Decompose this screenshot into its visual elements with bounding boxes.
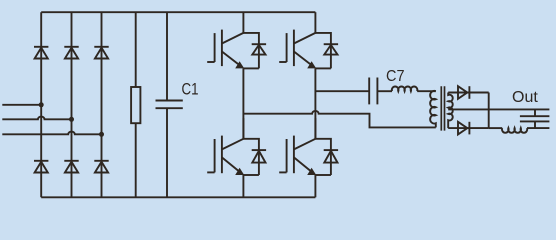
node phase 2 junction: [69, 117, 74, 122]
diode D7 output top: [458, 86, 469, 99]
diode D5 rectifier bottom middle: [64, 161, 78, 173]
wire center tap output rail: [448, 108, 549, 110]
wire secondary top to diode D7: [448, 92, 489, 94]
wire right leg midpoint to C7: [315, 90, 369, 92]
wire left bridge leg vertical: [242, 68, 244, 138]
wire AC input phase 2 with hop over column 1: [2, 117, 71, 120]
capacitor C8 output filter: [520, 109, 550, 128]
transformer T1 core: [441, 86, 444, 130]
diode D1 rectifier top left: [34, 47, 48, 59]
wire rectifier output join vertical: [488, 93, 490, 129]
capacitor C1 plates: [156, 101, 183, 109]
wire left leg midpoint return with hop over right leg: [243, 111, 435, 127]
inductor L2: [502, 128, 527, 133]
svg-text:C1: C1: [182, 81, 199, 99]
svg-text:Out: Out: [512, 89, 538, 106]
wire right bridge leg vertical: [314, 68, 316, 138]
wire right leg bottom emitter to bus: [314, 175, 316, 197]
resistor R1 branch wires: [135, 12, 137, 197]
diode D6 rectifier bottom right: [94, 161, 108, 173]
wire rectifier column 2: [71, 12, 73, 197]
transformer T1 primary winding: [430, 91, 436, 128]
wire L1 to transformer primary: [417, 90, 436, 92]
resistor R1 body: [131, 87, 140, 123]
IGBT Q2 with freewheel diode (top right): [279, 12, 338, 68]
capacitor C7 plates: [369, 78, 377, 105]
IGBT Q1 with freewheel diode (top left): [207, 12, 266, 68]
wire L2 to output: [527, 127, 549, 129]
diode D3 rectifier top right: [94, 47, 108, 59]
inductor L1: [392, 87, 418, 92]
diode D4 rectifier bottom left: [34, 161, 48, 173]
wire rectifier column 3: [101, 12, 103, 197]
wire top DC bus: [41, 11, 315, 13]
diode D8 output bottom: [458, 122, 469, 135]
IGBT Q4 with freewheel diode (bottom right): [279, 118, 338, 175]
wire AC input phase 3 with hop over column 2: [2, 132, 101, 135]
diode D2 rectifier top middle: [64, 47, 78, 59]
capacitor C1 branch wires: [166, 12, 168, 197]
IGBT Q3 with freewheel diode (bottom left): [207, 118, 266, 175]
wire bottom DC bus: [41, 196, 315, 198]
node phase 3 junction: [99, 132, 104, 137]
wire left leg bottom emitter to bus: [242, 175, 244, 197]
wire join to inductor L2: [489, 127, 503, 129]
wire secondary bottom to diode D8: [448, 127, 489, 129]
wire C7 to inductor L1: [377, 90, 392, 92]
wire AC input phase 1: [2, 104, 41, 106]
node phase 1 junction: [39, 102, 44, 107]
transformer T1 secondary winding: [448, 93, 453, 129]
wire rectifier column 1: [40, 12, 42, 197]
svg-text:C7: C7: [386, 68, 405, 85]
